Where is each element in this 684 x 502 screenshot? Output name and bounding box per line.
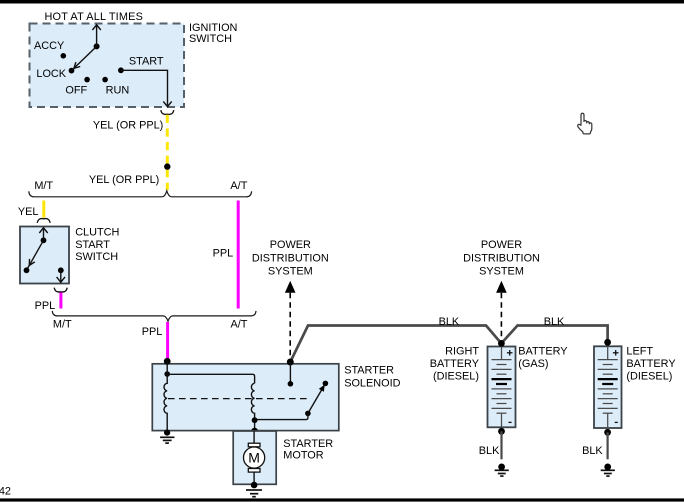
node battery left negative: [604, 429, 611, 436]
svg-text:PPL: PPL: [35, 300, 56, 312]
svg-text:(GAS): (GAS): [518, 358, 548, 370]
svg-text:POWER: POWER: [481, 239, 522, 251]
wire BLK dot to fixed contact: [289, 362, 291, 384]
motor brush lower: [248, 469, 260, 473]
battery gas minus: [509, 421, 512, 423]
battery gas plus: [507, 350, 513, 356]
svg-text:YEL (OR PPL): YEL (OR PPL): [89, 174, 159, 186]
arrow to power distribution system right: [496, 281, 507, 342]
contact OFF: [84, 77, 90, 83]
svg-text:PPL: PPL: [142, 326, 163, 338]
node solenoid to motor: [251, 428, 258, 435]
svg-text:STARTER: STARTER: [344, 364, 394, 376]
node solenoid ground: [164, 430, 170, 436]
svg-text:LOCK: LOCK: [36, 68, 66, 80]
contact START: [118, 67, 124, 73]
contact LOCK: [69, 68, 75, 74]
contact RUN: [102, 77, 108, 83]
wire BLK solenoid to battery gas: [290, 326, 501, 363]
plunger linkage dashed: [168, 398, 311, 400]
brace splitting YEL to M/T and A/T: [29, 191, 252, 197]
node PPL at solenoid: [164, 358, 171, 365]
label STARTER SOLENOID: [344, 364, 400, 389]
svg-text:OFF: OFF: [65, 85, 87, 97]
mouse cursor hand: [578, 113, 592, 134]
svg-text:CLUTCH: CLUTCH: [75, 227, 119, 239]
svg-text:SYSTEM: SYSTEM: [268, 266, 313, 278]
connector above clutch start switch: [37, 219, 50, 223]
svg-text:BATTERY: BATTERY: [626, 358, 676, 370]
motor M1 armature: [244, 447, 265, 468]
svg-text:PPL: PPL: [213, 247, 234, 259]
node battery gas positive: [498, 340, 505, 347]
ground G3 battery gas: [495, 464, 509, 477]
feed arrow to HOT AT ALL TIMES: [92, 25, 100, 47]
clutch switch output arrow: [57, 270, 65, 282]
svg-text:BATTERY: BATTERY: [430, 358, 480, 370]
ground G2 motor: [246, 490, 262, 497]
bottom border rule: [0, 498, 684, 501]
wire PPL to starter solenoid: [166, 322, 169, 361]
wire BLK battery gas to left battery: [501, 326, 607, 344]
coil L1 hold-in: [164, 374, 167, 431]
label RIGHT BATTERY (DIESEL): [430, 346, 480, 383]
label POWER DISTRIBUTION SYSTEM left: [252, 239, 329, 277]
motor brush upper: [248, 443, 260, 447]
wire PPL M/T branch: [59, 293, 62, 309]
svg-text:BLK: BLK: [544, 316, 565, 328]
svg-text:BATTERY: BATTERY: [518, 346, 568, 358]
wiper arm to LOCK: [73, 46, 97, 69]
ground G1 solenoid: [160, 437, 174, 443]
svg-text:RIGHT: RIGHT: [445, 346, 479, 358]
battery left minus: [615, 421, 618, 423]
svg-text:SOLENOID: SOLENOID: [344, 377, 400, 389]
node coil2 junction: [252, 417, 258, 423]
solenoid moving contact arm: [308, 385, 325, 414]
svg-text:42: 42: [0, 486, 11, 498]
battery left plus: [613, 350, 619, 356]
node battery left positive: [604, 339, 611, 346]
label STARTER MOTOR: [283, 438, 333, 462]
svg-text:M: M: [248, 450, 260, 466]
svg-text:BLK: BLK: [582, 445, 603, 457]
svg-text:YEL: YEL: [18, 206, 39, 218]
svg-text:START: START: [129, 55, 164, 67]
svg-text:BLK: BLK: [479, 445, 500, 457]
solenoid fixed contact: [288, 381, 294, 387]
connector below clutch start switch: [54, 288, 67, 292]
brace merging M/T and A/T to PPL: [52, 311, 256, 321]
battery left cells: [598, 346, 618, 427]
svg-text:SYSTEM: SYSTEM: [479, 266, 524, 278]
svg-text:DISTRIBUTION: DISTRIBUTION: [252, 252, 329, 264]
wire START output: [121, 70, 172, 106]
clutch switch output contact: [58, 267, 64, 273]
battery gas cells: [492, 347, 512, 427]
solenoid contact pivot: [305, 411, 311, 417]
svg-text:START: START: [75, 239, 110, 251]
starter solenoid box: [152, 364, 338, 431]
wire battery gas to ground: [500, 431, 502, 459]
wire solenoid to motor: [253, 431, 255, 443]
label BATTERY (GAS): [518, 346, 568, 371]
svg-text:POWER: POWER: [270, 239, 311, 251]
label IGNITION SWITCH: [189, 22, 237, 45]
wire YEL (OR PPL) dashed: [166, 115, 169, 190]
svg-text:DISTRIBUTION: DISTRIBUTION: [463, 252, 540, 264]
label LEFT BATTERY (DIESEL): [626, 346, 676, 383]
node solenoid coil tap: [164, 371, 170, 377]
svg-text:LEFT: LEFT: [626, 346, 653, 358]
ground G4 battery left: [601, 464, 615, 477]
svg-text:BLK: BLK: [439, 316, 460, 328]
svg-text:A/T: A/T: [231, 318, 248, 330]
clutch switch left contact: [24, 267, 30, 273]
svg-text:ACCY: ACCY: [34, 40, 65, 52]
clutch start switch box S2: [20, 227, 69, 284]
clutch switch input contact: [41, 237, 47, 243]
svg-text:YEL (OR PPL): YEL (OR PPL): [93, 120, 163, 132]
node BLK at solenoid: [287, 359, 294, 366]
svg-text:STARTER: STARTER: [283, 438, 333, 450]
node motor ground: [251, 482, 258, 489]
svg-text:HOT AT ALL TIMES: HOT AT ALL TIMES: [45, 11, 144, 23]
clutch switch wiper arm: [28, 240, 44, 268]
svg-text:RUN: RUN: [106, 85, 130, 97]
coil L2 pull-in: [251, 383, 254, 431]
starter motor box: [233, 431, 276, 484]
splice node on YEL wire: [164, 163, 170, 169]
wire tap to pull-in coil: [167, 374, 254, 383]
solenoid contact upper: [323, 381, 329, 387]
svg-text:(DIESEL): (DIESEL): [433, 371, 479, 383]
svg-text:SWITCH: SWITCH: [75, 251, 118, 263]
wire PPL dot to tap: [166, 361, 168, 374]
battery B1 gas box: [488, 347, 516, 428]
node battery gas negative: [498, 428, 505, 435]
wire battery left to ground: [606, 432, 608, 459]
connector below ignition switch: [161, 110, 174, 114]
label POWER DISTRIBUTION SYSTEM right: [463, 239, 540, 277]
svg-text:M/T: M/T: [34, 180, 53, 192]
wire pivot to coil junction: [255, 413, 308, 419]
wire motor to ground: [253, 472, 255, 484]
clutch switch arrow up: [39, 228, 47, 241]
ignition switch box S1: [30, 24, 185, 108]
wire YEL M/T branch: [42, 201, 45, 218]
contact ACCY: [61, 53, 67, 59]
svg-text:SWITCH: SWITCH: [189, 33, 232, 45]
arrow to power distribution system left: [285, 281, 296, 360]
battery B2 left diesel box: [594, 346, 622, 428]
wiper pivot: [94, 43, 100, 49]
svg-text:M/T: M/T: [53, 318, 72, 330]
svg-text:MOTOR: MOTOR: [283, 450, 323, 462]
label CLUTCH START SWITCH: [75, 227, 119, 263]
svg-text:A/T: A/T: [230, 180, 247, 192]
wire PPL A/T branch: [237, 201, 240, 309]
top border rule: [0, 0, 684, 4]
svg-text:(DIESEL): (DIESEL): [626, 371, 672, 383]
